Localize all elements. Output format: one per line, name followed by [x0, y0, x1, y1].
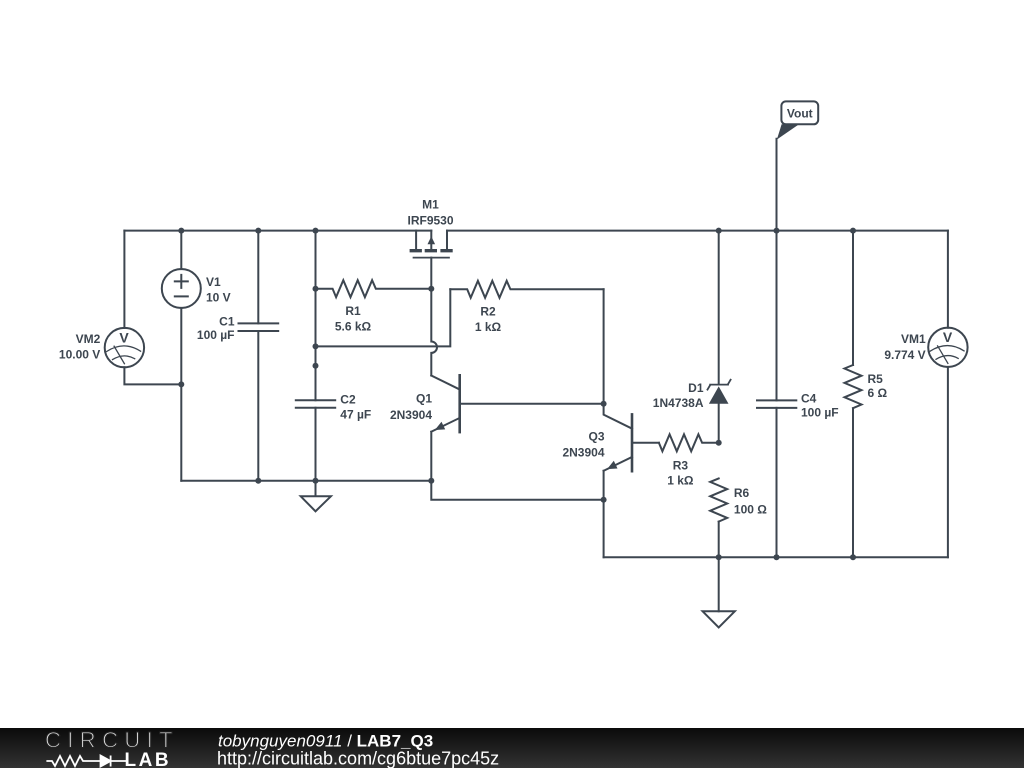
- wire bottom-left rail: [181, 480, 431, 482]
- svg-text:M1: M1: [422, 197, 439, 211]
- svg-text:IRF9530: IRF9530: [407, 213, 453, 227]
- svg-text:C4: C4: [801, 392, 817, 406]
- svg-text:R6: R6: [734, 486, 750, 500]
- svg-text:5.6 kΩ: 5.6 kΩ: [335, 319, 372, 333]
- node emitters join: [601, 497, 607, 503]
- transistor Q3: [604, 404, 659, 558]
- node Q1 emitter: [428, 478, 434, 484]
- wire top rail left: [124, 230, 431, 232]
- svg-text:CIRCUIT: CIRCUIT: [45, 727, 179, 752]
- MOSFET M1: [410, 231, 453, 258]
- svg-text:R3: R3: [673, 458, 689, 472]
- svg-text:47 µF: 47 µF: [340, 407, 371, 421]
- resistor R6: [710, 478, 727, 521]
- wire D1 branch top: [718, 231, 720, 385]
- voltmeter VM1: [928, 328, 967, 367]
- wire R6 bottom lead: [718, 522, 720, 558]
- capacitor C2: [296, 400, 335, 408]
- node top rail Vout: [774, 228, 780, 234]
- svg-text:100 µF: 100 µF: [197, 328, 235, 342]
- wire top rail right: [447, 230, 948, 232]
- svg-text:V: V: [119, 329, 129, 345]
- node D1 R3 R6: [716, 440, 722, 446]
- wire V1 bottom: [180, 308, 182, 481]
- svg-text:100 µF: 100 µF: [801, 406, 839, 420]
- wire D1 to R6: [718, 404, 720, 443]
- zener diode D1: [708, 380, 731, 404]
- resistor R3: [659, 434, 719, 451]
- svg-text:Vout: Vout: [787, 106, 813, 120]
- wire R5 branch: [852, 231, 854, 558]
- node flag Vout: [777, 101, 818, 139]
- node Q1 base R2: [601, 401, 607, 407]
- resistor R2: [450, 281, 603, 298]
- svg-text:1N4738A: 1N4738A: [653, 396, 704, 410]
- node bottom R5: [850, 554, 856, 560]
- svg-text:D1: D1: [688, 381, 704, 395]
- svg-text:R5: R5: [868, 372, 884, 386]
- svg-text:2N3904: 2N3904: [390, 408, 432, 422]
- CircuitLab logo resistor-diode: [46, 756, 127, 767]
- node top rail V1: [178, 228, 184, 234]
- node mid wire left: [313, 343, 319, 349]
- svg-text:http://circuitlab.com/cg6btue7: http://circuitlab.com/cg6btue7pc45z: [217, 748, 499, 768]
- ground left: [301, 481, 331, 512]
- svg-text:100 Ω: 100 Ω: [734, 502, 767, 516]
- svg-text:6 Ω: 6 Ω: [868, 386, 888, 400]
- wire mid horizontal to R2 drop: [316, 289, 451, 346]
- wire M1 gate down with hop: [431, 258, 437, 376]
- svg-text:C2: C2: [340, 393, 356, 407]
- node R1 right gate: [428, 286, 434, 292]
- node bottom C4: [774, 554, 780, 560]
- svg-text:V1: V1: [206, 275, 221, 289]
- svg-text:VM1: VM1: [901, 332, 926, 346]
- node bottom gnd: [716, 554, 722, 560]
- node C2 top: [313, 363, 319, 369]
- wire bottom rail: [604, 556, 948, 558]
- node top rail R5: [850, 228, 856, 234]
- footer bar: [0, 727, 1024, 768]
- svg-text:Q3: Q3: [588, 430, 604, 444]
- wire V1 top: [180, 231, 182, 270]
- svg-text:10.00 V: 10.00 V: [59, 347, 100, 361]
- resistor R5: [845, 365, 862, 408]
- wire C4 branch: [776, 139, 778, 557]
- voltmeter VM2: [105, 328, 144, 367]
- svg-text:1 kΩ: 1 kΩ: [667, 474, 694, 488]
- svg-text:C1: C1: [219, 315, 235, 329]
- node R1 left: [313, 286, 319, 292]
- svg-text:9.774 V: 9.774 V: [884, 348, 925, 362]
- wire VM1 branch: [947, 231, 949, 558]
- wire R1/C2 branch: [315, 231, 317, 481]
- voltage source V1: [162, 269, 201, 308]
- node bottom C2 gnd: [313, 478, 319, 484]
- node top rail D1: [716, 228, 722, 234]
- resistor R1: [316, 280, 432, 297]
- transistor Q1: [431, 375, 603, 499]
- wire ground right stem: [718, 557, 720, 611]
- svg-text:R2: R2: [480, 304, 496, 318]
- node VM2 V1: [178, 381, 184, 387]
- wire R2 right drop: [603, 289, 605, 403]
- capacitor C1: [239, 323, 279, 331]
- wire VM2 bottom to V1: [124, 367, 181, 384]
- capacitor C4: [757, 400, 796, 408]
- wire C1 branch: [257, 231, 259, 481]
- ground right: [703, 611, 735, 627]
- node bottom C1: [255, 478, 261, 484]
- svg-text:VM2: VM2: [76, 332, 101, 346]
- node top rail R1: [313, 228, 319, 234]
- svg-text:R1: R1: [345, 304, 361, 318]
- wire VM2 top: [123, 231, 125, 328]
- node top rail C1: [255, 228, 261, 234]
- svg-text:1 kΩ: 1 kΩ: [475, 320, 502, 334]
- svg-text:2N3904: 2N3904: [562, 446, 604, 460]
- svg-text:V: V: [943, 329, 953, 345]
- svg-text:10 V: 10 V: [206, 290, 231, 304]
- svg-text:LAB: LAB: [125, 750, 172, 768]
- svg-text:Q1: Q1: [416, 392, 432, 406]
